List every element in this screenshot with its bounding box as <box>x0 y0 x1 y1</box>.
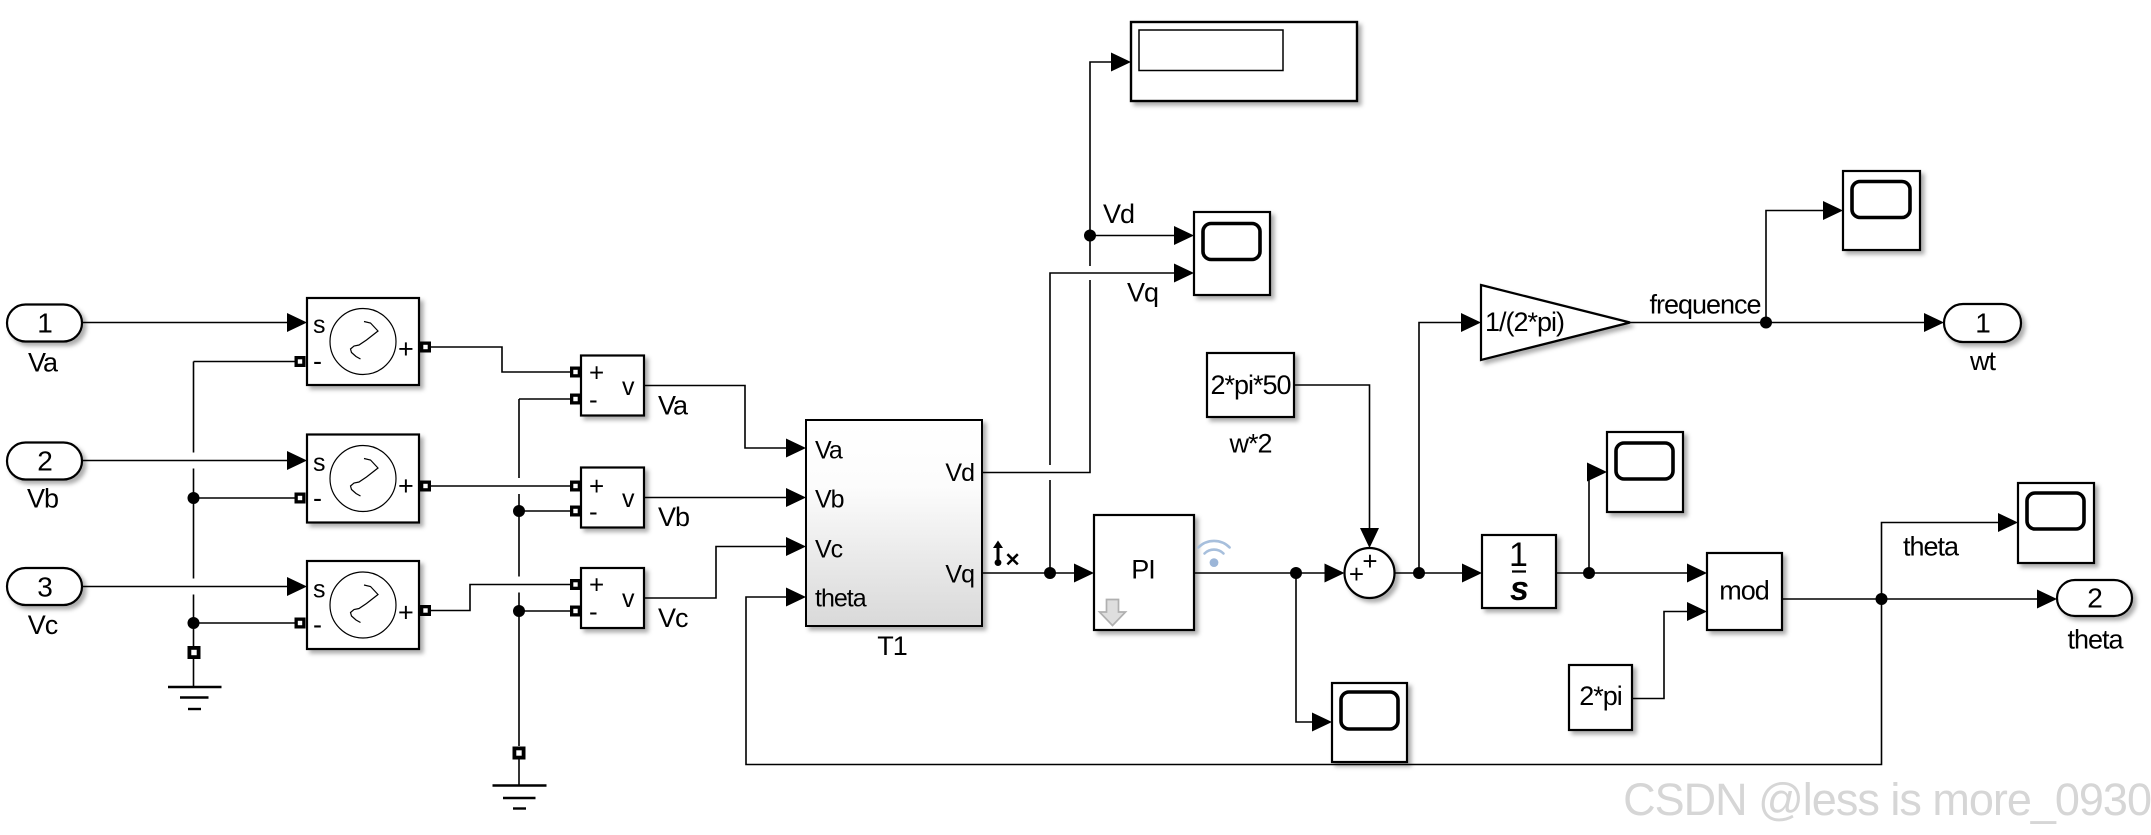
arrowhead into scope1 input2 <box>1174 264 1194 283</box>
svg-text:Va: Va <box>815 437 843 465</box>
svg-text:Vq: Vq <box>1127 278 1158 308</box>
svg-text:Vb: Vb <box>815 486 844 514</box>
arrowhead into T1 theta <box>786 588 806 607</box>
svg-text:s: s <box>313 311 325 339</box>
wire source1 plus to meter Va <box>431 347 571 372</box>
wifi logging badge at PI output <box>1198 541 1229 567</box>
scope2 above integrator <box>1607 432 1683 512</box>
svg-text:Vc: Vc <box>28 610 58 640</box>
svg-text:wt: wt <box>1969 346 1996 376</box>
signal dimension annotation 1x at T1 Vq output <box>993 541 1018 566</box>
port square source3 plus <box>420 605 431 616</box>
svg-text:T1: T1 <box>877 631 907 661</box>
svg-text:s: s <box>1510 570 1528 608</box>
ground 2 symbol <box>493 760 547 809</box>
wire Vq junction riser to scope1 input2 <box>1050 273 1175 573</box>
wire Vd junction to scope1 input1 <box>1090 235 1175 237</box>
svg-text:2: 2 <box>37 446 52 477</box>
junction left bus at source3 minus <box>188 617 200 629</box>
arrowhead into PI <box>1074 564 1094 583</box>
port square meter Vb minus <box>570 506 581 517</box>
svg-text:Vb: Vb <box>27 484 58 514</box>
svg-text:1: 1 <box>37 308 52 339</box>
wire right bus to meter Vb minus <box>519 510 571 512</box>
arrowhead into mod input1 <box>1687 564 1707 583</box>
svg-text:Vd: Vd <box>945 459 974 487</box>
port square source2 minus <box>295 493 306 504</box>
inport 1 <box>7 305 82 342</box>
arrowhead into gain <box>1461 313 1481 332</box>
svg-text:+: + <box>589 358 603 388</box>
junction Vq to scope1 <box>1044 567 1056 579</box>
svg-text:v: v <box>622 373 635 401</box>
arrowhead into sum top <box>1360 528 1379 548</box>
junction sum output <box>1413 567 1425 579</box>
inport 2 <box>7 443 82 480</box>
svg-text:-: - <box>313 610 321 640</box>
svg-text:Vq: Vq <box>945 561 974 589</box>
wire inport3 to source3 s <box>82 586 288 588</box>
svg-text:2*pi: 2*pi <box>1579 681 1622 711</box>
svg-text:Vc: Vc <box>658 603 688 633</box>
wire source2 plus to meter Vb <box>431 485 571 487</box>
wire integrator output to mod input1 <box>1556 572 1688 574</box>
svg-text:1: 1 <box>1975 308 1990 339</box>
wire meter Vc to T1 Vc <box>644 547 787 599</box>
constant 2*pi <box>1569 665 1632 730</box>
svg-text:mod: mod <box>1719 576 1769 606</box>
mod block <box>1707 553 1782 630</box>
voltage measurement Vb <box>581 468 644 528</box>
svg-text:theta: theta <box>1903 532 1960 562</box>
junction mod output <box>1876 593 1888 605</box>
svg-text:v: v <box>622 485 635 513</box>
wire frequence junction riser to scope3 <box>1766 211 1824 323</box>
svg-text:3: 3 <box>37 572 52 603</box>
controlled voltage source 3 <box>307 561 419 649</box>
port square source1 minus <box>295 356 306 367</box>
svg-text:-: - <box>313 483 321 513</box>
arrowhead into scope5 <box>1998 513 2018 532</box>
wire PI output to sum <box>1194 572 1325 574</box>
controlled voltage source 1 <box>307 298 419 385</box>
scope5 theta <box>2018 483 2094 563</box>
svg-text:frequence: frequence <box>1649 290 1760 320</box>
wire meter Vb to T1 Vb <box>644 497 787 499</box>
svg-text:+: + <box>398 334 413 364</box>
port square source2 plus <box>420 481 431 492</box>
wire left bus to source2 minus <box>194 497 297 499</box>
display block <box>1131 22 1357 101</box>
arrowhead into T1 Vb <box>786 488 806 507</box>
svg-text:+: + <box>398 598 413 628</box>
junction PI output <box>1290 567 1302 579</box>
svg-text:2*pi*50: 2*pi*50 <box>1210 370 1290 400</box>
scope3 top right <box>1843 171 1920 250</box>
gray parameter arrow icon in PI <box>1100 600 1126 626</box>
port square source1 plus <box>420 342 431 353</box>
arrowhead into display <box>1111 53 1131 72</box>
controlled voltage source 2 <box>307 435 419 523</box>
svg-text:Va: Va <box>28 348 59 378</box>
svg-text:-: - <box>589 385 597 415</box>
arrowhead into scope2 <box>1587 463 1607 482</box>
port square meter Vb plus <box>570 481 581 492</box>
ground 1 symbol <box>168 659 222 709</box>
svg-text:+: + <box>589 570 603 600</box>
voltage measurement Va <box>581 356 644 416</box>
arrowhead into T1 Vc <box>786 537 806 556</box>
voltage measurement Vc <box>581 568 644 628</box>
svg-text:+: + <box>1349 559 1363 589</box>
ground 2 port square <box>513 747 526 760</box>
svg-text:v: v <box>622 585 635 613</box>
wire integrator junction riser to scope2 <box>1588 472 1590 573</box>
arrowhead into outport wt <box>1924 313 1944 332</box>
wire constant 2*pi to mod input2 <box>1632 612 1688 699</box>
sum block <box>1345 546 1395 598</box>
integrator 1/s <box>1482 535 1556 608</box>
svg-text:1/(2*pi): 1/(2*pi) <box>1485 307 1564 337</box>
wire inport2 to source2 s <box>82 460 288 462</box>
wire right bus to meter Vc minus <box>519 610 571 612</box>
svg-text:s: s <box>313 576 325 604</box>
svg-text:Vb: Vb <box>658 502 689 532</box>
subsystem T1 <box>806 420 982 626</box>
wire left bus to source3 minus <box>194 622 297 624</box>
svg-text:Vc: Vc <box>815 536 843 564</box>
svg-text:-: - <box>589 597 597 627</box>
wire left bus to source1 minus <box>194 361 297 363</box>
svg-text:2: 2 <box>2087 583 2102 614</box>
wire right negative bus vertical <box>518 399 520 746</box>
arrowhead into integrator <box>1462 564 1482 583</box>
svg-text:s: s <box>313 449 325 477</box>
wire right bus to meter Va minus <box>519 398 571 400</box>
arrowhead into outport theta <box>2037 590 2057 609</box>
inport 3 <box>7 568 82 605</box>
wire constant 2*pi*50 to sum top <box>1294 385 1370 528</box>
svg-text:+: + <box>1362 546 1376 576</box>
arrowhead into sum left <box>1325 564 1345 583</box>
port square meter Va plus <box>570 367 581 378</box>
arrowhead into source1 s <box>287 313 307 332</box>
svg-text:PI: PI <box>1131 555 1155 585</box>
svg-text:theta: theta <box>815 585 867 613</box>
PI controller block <box>1094 515 1194 630</box>
outport 2 theta <box>2057 580 2132 616</box>
junction left bus at source2 minus <box>188 492 200 504</box>
junction frequence <box>1760 317 1772 329</box>
wire T1 Vq output to PI <box>982 572 1075 574</box>
svg-text:Va: Va <box>658 391 689 421</box>
wire source3 plus to meter Vc <box>431 585 571 611</box>
junction right bus at meter Vb minus <box>513 505 525 517</box>
wire inport1 to source1 s <box>82 322 288 324</box>
svg-text:1: 1 <box>1509 536 1527 574</box>
wire T1 Vd output to display riser <box>982 62 1112 473</box>
arrowhead into mod input2 <box>1687 602 1707 621</box>
svg-text:+: + <box>398 471 413 501</box>
junction right bus at meter Vc minus <box>513 605 525 617</box>
junction Vd to scope1 <box>1084 230 1096 242</box>
arrowhead into scope4 <box>1312 713 1332 732</box>
port square meter Vc minus <box>570 606 581 617</box>
scope1 Vd Vq <box>1194 212 1270 295</box>
wire gain output to outport wt <box>1630 322 1925 324</box>
arrowhead into source3 s <box>287 577 307 596</box>
arrowhead into T1 Va <box>786 439 806 458</box>
wire meter Va to T1 Va <box>644 386 787 449</box>
port square source3 minus <box>295 618 306 629</box>
constant 2*pi*50 <box>1207 353 1294 417</box>
arrowhead into scope1 input1 <box>1174 226 1194 245</box>
gain 1/(2*pi) <box>1481 285 1630 360</box>
junction integrator output <box>1583 567 1595 579</box>
svg-text:CSDN @less is more_0930: CSDN @less is more_0930 <box>1623 774 2151 825</box>
wire left negative bus vertical <box>193 362 195 648</box>
svg-text:-: - <box>313 346 321 376</box>
ground 1 port square <box>188 646 201 659</box>
wire sum output to integrator <box>1395 572 1464 574</box>
svg-text:Vd: Vd <box>1103 199 1134 229</box>
wire mod junction riser to scope5 <box>1882 523 2000 600</box>
arrowhead into scope3 <box>1823 201 1843 220</box>
wire theta feedback from mod output junction to T1 theta <box>746 597 1882 765</box>
outport 1 wt <box>1944 304 2021 342</box>
port square meter Vc plus <box>570 579 581 590</box>
wire PI output junction to scope4 <box>1296 573 1313 722</box>
wire mod output to outport theta <box>1782 598 2038 600</box>
port square meter Va minus <box>570 394 581 405</box>
scope4 below PI <box>1332 683 1407 762</box>
svg-text:w*2: w*2 <box>1228 429 1271 459</box>
arrowhead into source2 s <box>287 451 307 470</box>
wire sum output junction riser to gain input <box>1419 323 1462 574</box>
svg-text:-: - <box>589 497 597 527</box>
svg-text:theta: theta <box>2067 625 2124 655</box>
